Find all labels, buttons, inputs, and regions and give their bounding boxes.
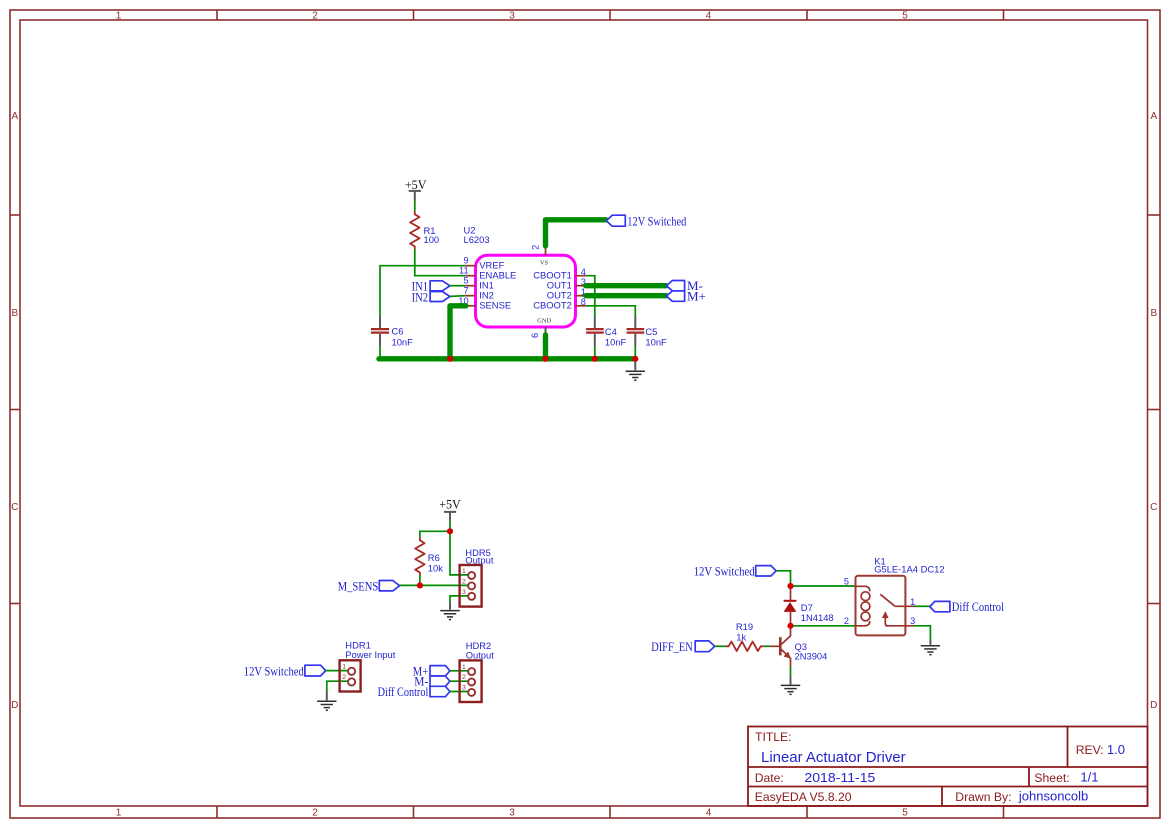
svg-text:4: 4: [706, 807, 712, 818]
svg-text:2: 2: [531, 245, 541, 250]
svg-text:Diff Control: Diff Control: [952, 599, 1005, 614]
svg-text:C6: C6: [392, 326, 404, 337]
svg-text:2: 2: [342, 674, 346, 681]
svg-text:3: 3: [462, 685, 466, 692]
svg-text:IN2: IN2: [412, 289, 428, 304]
svg-text:G5LE-1A4 DC12: G5LE-1A4 DC12: [874, 564, 944, 575]
svg-text:Linear Actuator Driver: Linear Actuator Driver: [761, 749, 906, 766]
svg-text:M+: M+: [687, 288, 706, 303]
svg-text:2: 2: [462, 578, 466, 585]
svg-text:Diff Control: Diff Control: [378, 684, 429, 699]
svg-text:GND: GND: [537, 317, 551, 324]
svg-text:TITLE:: TITLE:: [755, 730, 792, 744]
svg-text:A: A: [11, 111, 18, 122]
svg-text:1N4148: 1N4148: [801, 612, 834, 623]
svg-text:Output: Output: [466, 650, 495, 661]
svg-text:1: 1: [910, 597, 915, 607]
svg-text:SENSE: SENSE: [479, 300, 511, 311]
svg-text:1: 1: [116, 807, 122, 818]
svg-text:1: 1: [462, 664, 466, 671]
svg-text:100: 100: [424, 234, 440, 245]
svg-text:2018-11-15: 2018-11-15: [804, 770, 875, 785]
svg-text:Date:: Date:: [755, 771, 784, 785]
svg-text:1: 1: [116, 10, 122, 21]
svg-text:12V Switched: 12V Switched: [627, 213, 686, 228]
svg-text:Drawn By:: Drawn By:: [955, 790, 1011, 804]
svg-text:2: 2: [844, 616, 849, 626]
svg-text:Power Input: Power Input: [345, 649, 395, 660]
svg-text:4: 4: [581, 267, 586, 277]
svg-text:1: 1: [462, 568, 466, 575]
svg-text:2: 2: [312, 807, 318, 818]
svg-text:D: D: [11, 700, 18, 711]
svg-text:2N3904: 2N3904: [795, 651, 828, 662]
svg-text:5: 5: [463, 276, 468, 286]
svg-text:12V Switched: 12V Switched: [244, 664, 304, 679]
svg-text:6: 6: [530, 333, 540, 338]
svg-text:9: 9: [463, 256, 468, 266]
svg-text:3: 3: [462, 589, 466, 596]
svg-text:5: 5: [902, 807, 908, 818]
svg-text:3: 3: [509, 10, 515, 21]
svg-text:2: 2: [462, 674, 466, 681]
svg-text:R19: R19: [736, 621, 753, 632]
svg-text:5: 5: [902, 10, 908, 21]
svg-text:REV:: REV:: [1076, 743, 1104, 757]
svg-text:12V Switched: 12V Switched: [694, 564, 755, 579]
svg-text:C5: C5: [645, 326, 657, 337]
svg-text:CBOOT2: CBOOT2: [533, 300, 572, 311]
svg-text:A: A: [1150, 111, 1157, 122]
svg-text:1.0: 1.0: [1107, 742, 1125, 757]
svg-text:7: 7: [463, 286, 468, 296]
svg-text:4: 4: [706, 10, 712, 21]
svg-text:+5V: +5V: [439, 497, 461, 512]
svg-text:M_SENS: M_SENS: [338, 578, 379, 593]
svg-text:Sheet:: Sheet:: [1034, 771, 1069, 785]
svg-text:EasyEDA V5.8.20: EasyEDA V5.8.20: [755, 790, 852, 804]
svg-text:Output: Output: [465, 555, 494, 566]
svg-text:johnsoncolb: johnsoncolb: [1018, 789, 1088, 804]
svg-text:11: 11: [459, 266, 469, 276]
svg-text:1k: 1k: [736, 631, 746, 642]
svg-text:C: C: [11, 502, 18, 513]
svg-text:D: D: [1150, 700, 1157, 711]
svg-text:1: 1: [342, 664, 346, 671]
svg-text:DIFF_EN: DIFF_EN: [651, 639, 693, 654]
svg-text:C: C: [1150, 502, 1157, 513]
svg-text:10nF: 10nF: [605, 337, 627, 348]
svg-text:B: B: [1150, 308, 1157, 319]
svg-text:10nF: 10nF: [392, 337, 414, 348]
svg-text:5: 5: [844, 576, 849, 586]
svg-text:2: 2: [312, 10, 318, 21]
svg-text:10k: 10k: [428, 562, 443, 573]
svg-text:1/1: 1/1: [1080, 770, 1098, 785]
svg-text:3: 3: [910, 616, 915, 626]
svg-text:+5V: +5V: [405, 177, 427, 192]
svg-text:C4: C4: [605, 326, 617, 337]
svg-text:VS: VS: [540, 259, 549, 266]
svg-text:8: 8: [581, 297, 586, 307]
svg-text:B: B: [11, 308, 18, 319]
svg-text:10nF: 10nF: [645, 337, 667, 348]
svg-text:3: 3: [509, 807, 515, 818]
svg-text:L6203: L6203: [464, 234, 490, 245]
